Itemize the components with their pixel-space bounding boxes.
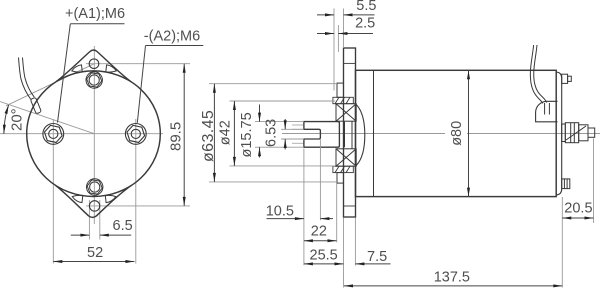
svg-text:+(A1);M6: +(A1);M6 <box>65 6 125 22</box>
svg-text:25.5: 25.5 <box>310 248 338 264</box>
svg-text:2.5: 2.5 <box>355 15 375 31</box>
svg-text:52: 52 <box>87 245 103 261</box>
svg-text:5.5: 5.5 <box>356 0 376 14</box>
svg-text:20°: 20° <box>9 108 26 131</box>
svg-text:ø15.75: ø15.75 <box>239 112 255 157</box>
svg-text:137.5: 137.5 <box>434 269 470 285</box>
svg-text:22: 22 <box>311 224 327 240</box>
svg-text:6.5: 6.5 <box>113 218 133 234</box>
svg-text:7.5: 7.5 <box>367 249 387 265</box>
svg-text:6.53: 6.53 <box>264 119 280 147</box>
svg-text:ø80: ø80 <box>449 121 465 146</box>
svg-text:20.5: 20.5 <box>564 200 592 216</box>
svg-text:89.5: 89.5 <box>167 122 184 151</box>
svg-text:-(A2);M6: -(A2);M6 <box>144 28 200 44</box>
svg-text:10.5: 10.5 <box>266 204 294 220</box>
svg-text:ø63.45: ø63.45 <box>200 110 217 162</box>
svg-text:ø42: ø42 <box>217 120 233 145</box>
